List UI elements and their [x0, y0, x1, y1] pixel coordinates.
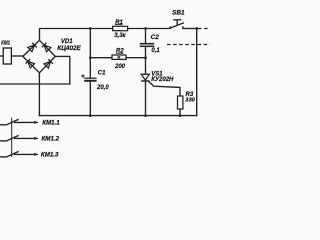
junction R2 left / C1 branch	[89, 56, 92, 59]
R2 power mark	[118, 56, 121, 58]
svg-text:200: 200	[114, 64, 126, 70]
capacitor C2 plates	[140, 43, 155, 45]
resistor R2	[112, 55, 126, 59]
resistor R1	[113, 26, 128, 30]
junction bottom rail / VS1 cathode	[144, 114, 147, 117]
capacitor C1 top plate	[84, 77, 96, 79]
svg-text:20,0: 20,0	[96, 85, 109, 91]
svg-text:330: 330	[185, 98, 195, 104]
svg-text:КМ1.1: КМ1.1	[42, 120, 60, 127]
svg-text:КМ1.3: КМ1.3	[41, 151, 59, 158]
diode upper-right	[42, 43, 51, 52]
wire SB1 junction vertical	[196, 29, 198, 116]
wire C2 to VS1 anode	[145, 46, 147, 74]
wire AC1 stub left edge	[0, 55, 3, 57]
bridge rectifier VD1 diamond	[23, 40, 56, 73]
underline R2	[116, 52, 123, 54]
svg-text:С1: С1	[98, 71, 106, 77]
wire C2 branch upper	[145, 29, 147, 44]
wire R3 bottom	[179, 109, 181, 116]
wire coil to bridge	[11, 55, 22, 57]
junction bottom rail / R3	[179, 114, 182, 117]
svg-text:SB1: SB1	[172, 9, 185, 16]
svg-text:3,3к: 3,3к	[114, 33, 126, 39]
wire top rail left	[40, 29, 113, 41]
svg-text:С2: С2	[151, 34, 160, 41]
diode lower-left	[26, 59, 35, 68]
underline R1	[115, 24, 123, 26]
wire R2 right	[126, 57, 146, 59]
mechanical linkage line	[11, 118, 13, 158]
junction SB1 right node	[195, 27, 198, 30]
C1 plus sign	[81, 74, 85, 78]
svg-text:КМ1.2: КМ1.2	[42, 135, 60, 142]
contact KM1.3	[0, 151, 35, 157]
diode lower-right	[44, 59, 53, 68]
junction bottom rail / C1	[89, 114, 92, 117]
svg-text:КУ202Н: КУ202Н	[151, 77, 174, 83]
svg-text:КЦ402Е: КЦ402Е	[57, 45, 81, 52]
wire VS1 gate	[149, 81, 181, 96]
contact KM1.1	[0, 119, 35, 125]
wire C1 branch vertical upper	[89, 29, 91, 78]
wire top rail right of R1	[128, 28, 171, 30]
resistor R3	[178, 96, 183, 109]
junction top rail / C1 branch	[89, 27, 92, 30]
wire bridge bottom vertical	[38, 73, 40, 116]
wire SB1 right to junction	[183, 28, 197, 30]
wire AC2 from left edge	[0, 56, 70, 84]
junction R2 right / VS1 anode	[144, 56, 147, 59]
wire dashed continuation right of SB1	[198, 28, 210, 30]
svg-text:0,1: 0,1	[151, 48, 160, 54]
diode upper-left	[28, 43, 37, 52]
thyristor VS1	[141, 74, 149, 80]
svg-text:R1: R1	[115, 20, 123, 26]
capacitor C1 bottom plate (thick)	[84, 80, 96, 82]
contact KM1.2	[0, 135, 35, 141]
svg-text:КМ1: КМ1	[1, 40, 10, 46]
push button SB1	[170, 20, 184, 29]
svg-text:R2: R2	[116, 49, 124, 55]
wire C1 branch vertical lower	[89, 82, 91, 116]
relay coil KM1	[3, 48, 11, 64]
wire bottom rail	[39, 115, 196, 117]
junction top rail / C2 branch	[144, 27, 147, 30]
wire dashed line mid right	[167, 44, 210, 46]
wire VS1 cathode down	[145, 81, 147, 116]
wire R2 left	[90, 57, 112, 59]
